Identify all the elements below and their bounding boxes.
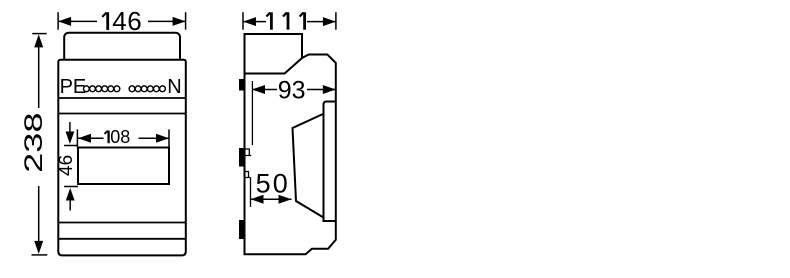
svg-text:PE: PE xyxy=(60,76,87,98)
svg-text:50: 50 xyxy=(256,169,290,199)
svg-text:46: 46 xyxy=(112,6,142,36)
svg-text:46: 46 xyxy=(56,155,77,176)
svg-text:08: 08 xyxy=(110,127,130,147)
svg-text:93: 93 xyxy=(278,77,306,105)
svg-text:238: 238 xyxy=(19,112,47,172)
svg-text:N: N xyxy=(167,76,181,98)
